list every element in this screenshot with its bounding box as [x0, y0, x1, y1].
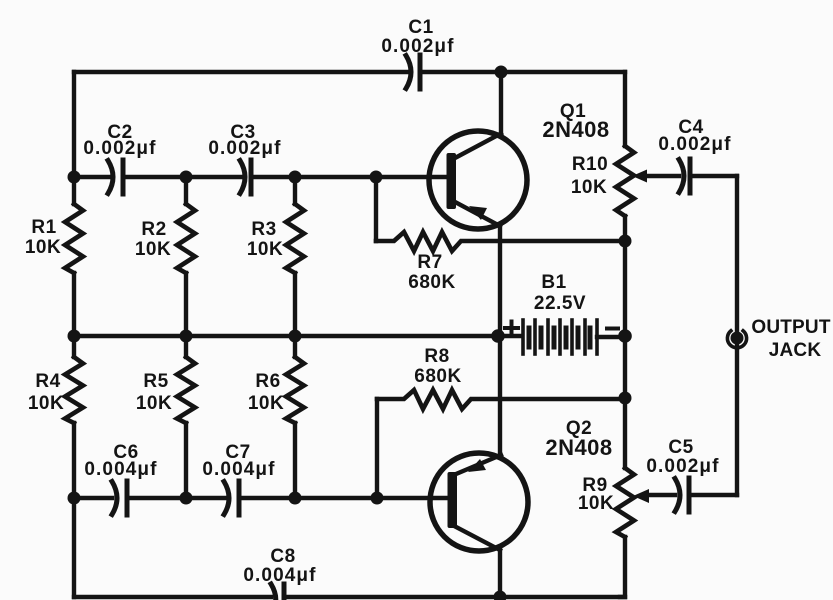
svg-text:680K: 680K — [414, 366, 461, 387]
svg-text:C1: C1 — [408, 17, 433, 38]
wire top rail right — [420, 70, 625, 74]
wire Q2 collector lead — [498, 550, 502, 597]
transistor Q2 — [430, 418, 613, 551]
node R8 right — [619, 392, 632, 405]
node mid rail left — [68, 330, 81, 343]
node row6 left — [68, 492, 81, 505]
wire bottom rail right — [284, 595, 625, 599]
battery B1 — [505, 272, 618, 354]
wire R1 to mid rail — [72, 273, 76, 336]
capacitor C3 — [208, 122, 281, 194]
transistor Q1 — [429, 101, 610, 229]
capacitor C6 — [84, 442, 157, 515]
wire row6 segment 3 — [239, 496, 448, 500]
resistor R8 — [377, 346, 625, 409]
svg-text:OUTPUT: OUTPUT — [751, 317, 831, 338]
wire R3 to mid rail — [293, 273, 297, 336]
capacitor C4 — [658, 117, 731, 193]
svg-text:10K: 10K — [25, 237, 61, 258]
svg-text:10K: 10K — [578, 493, 614, 514]
capacitor C7 — [202, 442, 275, 515]
wire output column — [735, 176, 739, 495]
node row2 at R2 — [180, 171, 193, 184]
wire R6 upper lead — [293, 336, 297, 357]
wire R2 upper lead — [184, 177, 188, 204]
resistor R1 — [25, 204, 83, 273]
node row2 R7 tap — [370, 171, 383, 184]
wire left column lower — [72, 498, 76, 597]
svg-text:0.002μf: 0.002μf — [208, 138, 281, 159]
node row6 at R5 — [180, 492, 193, 505]
svg-text:0.002μf: 0.002μf — [646, 456, 719, 477]
svg-text:C5: C5 — [668, 437, 693, 458]
svg-text:R8: R8 — [424, 346, 449, 367]
svg-text:R3: R3 — [251, 219, 276, 240]
wire top rail left — [74, 70, 408, 74]
wire battery minus stub — [597, 335, 625, 339]
svg-text:10K: 10K — [248, 393, 284, 414]
svg-text:680K: 680K — [408, 272, 455, 293]
wire Q1 collector lead — [499, 72, 503, 134]
node battery plus — [491, 329, 505, 343]
svg-text:R4: R4 — [35, 371, 60, 392]
resistor R7 — [376, 232, 625, 293]
resistor R9 — [578, 468, 634, 537]
svg-text:JACK: JACK — [769, 340, 822, 361]
svg-text:22.5V: 22.5V — [534, 293, 586, 314]
svg-text:B1: B1 — [541, 272, 566, 293]
svg-text:R6: R6 — [255, 371, 280, 392]
wire left column upper — [72, 72, 76, 204]
wire R2 to mid rail — [184, 273, 188, 336]
wire R7 node to battery minus — [623, 241, 627, 336]
svg-text:10K: 10K — [136, 393, 172, 414]
node R7 right — [619, 235, 632, 248]
svg-text:0.004μf: 0.004μf — [243, 565, 316, 586]
R10 wiper arrow — [632, 170, 647, 183]
svg-text:10K: 10K — [247, 239, 283, 260]
svg-text:0.004μf: 0.004μf — [84, 459, 157, 480]
capacitor C2 — [83, 122, 156, 194]
wire row2 segment 3 — [251, 175, 447, 179]
wire R6 to row6 — [293, 423, 297, 498]
svg-text:0.002μf: 0.002μf — [83, 138, 156, 159]
capacitor C5 — [646, 437, 719, 512]
node row6 at R6 — [289, 492, 302, 505]
wire R5 upper lead — [184, 336, 188, 357]
wire row6 segment 2 — [127, 496, 226, 500]
svg-text:0.004μf: 0.004μf — [202, 459, 275, 480]
wire C5 to output column — [691, 493, 737, 497]
wire right column upper — [623, 72, 627, 146]
svg-text:10K: 10K — [571, 177, 607, 198]
wire row2 segment 2 — [123, 175, 242, 179]
wire R7 tap vertical — [374, 177, 378, 241]
svg-text:0.002μf: 0.002μf — [381, 36, 454, 57]
wire battery minus to R8 node — [623, 336, 627, 398]
resistor R5 — [136, 357, 195, 423]
resistor R4 — [28, 357, 83, 423]
wire R4 upper lead — [72, 336, 76, 357]
wire R9 wiper to C5 — [647, 493, 675, 497]
wire Q2 emitter to battery — [498, 336, 502, 453]
node row2 left — [68, 171, 81, 184]
wire R10 wiper to C4 — [645, 174, 679, 178]
capacitor C1 — [381, 17, 454, 89]
wire R9 to bottom rail — [620, 537, 625, 597]
wire R8 tap vertical — [375, 399, 379, 498]
svg-text:R5: R5 — [143, 371, 168, 392]
svg-text:R2: R2 — [141, 219, 166, 240]
resistor R2 — [135, 204, 195, 273]
svg-text:C8: C8 — [270, 546, 295, 567]
wire R10 to R7 node — [623, 216, 627, 241]
wire mid rail — [74, 334, 522, 338]
svg-text:R1: R1 — [31, 217, 56, 238]
wire R5 to row6 — [184, 423, 188, 498]
svg-text:R10: R10 — [572, 154, 608, 175]
wire R3 upper lead — [293, 177, 297, 204]
output jack — [727, 317, 830, 361]
resistor R3 — [247, 204, 304, 273]
svg-text:2N408: 2N408 — [542, 117, 609, 142]
svg-text:10K: 10K — [28, 393, 64, 414]
svg-text:0.002μf: 0.002μf — [658, 134, 731, 155]
node battery minus — [618, 329, 632, 343]
svg-text:R7: R7 — [417, 252, 442, 273]
wire bottom rail left — [74, 595, 271, 599]
wire R8 node to R9 — [623, 398, 627, 468]
wire C4 to output column — [690, 174, 737, 178]
svg-text:10K: 10K — [135, 239, 171, 260]
R9 wiper arrow — [633, 489, 649, 503]
node top rail / Q1 collector — [495, 66, 508, 79]
node row2 at R3 — [289, 171, 302, 184]
node mid rail R2 — [180, 330, 193, 343]
wire Q1 emitter to battery — [498, 226, 502, 336]
node row6 R8 tap — [371, 492, 384, 505]
node bottom rail Q2 collector — [494, 591, 507, 600]
wire row2 segment 1 — [74, 175, 110, 179]
wire R4 to row6 — [72, 423, 76, 498]
svg-text:2N408: 2N408 — [545, 435, 612, 460]
resistor R6 — [248, 357, 304, 423]
capacitor C8 — [243, 546, 316, 600]
node mid rail R3 — [289, 330, 302, 343]
resistor R10 — [571, 146, 634, 216]
wire row6 segment 1 — [74, 496, 112, 500]
